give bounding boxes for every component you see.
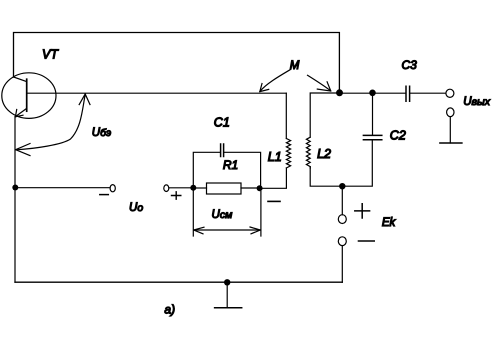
- node: collector / L2 / C3 junction: [336, 89, 343, 96]
- terminal: plus circle left of R1: [164, 185, 169, 192]
- dimension arrow Uсм double-headed: [195, 229, 260, 231]
- arrow from M to L2 top (right): [308, 75, 331, 91]
- svg-text:Ek: Ek: [382, 217, 397, 229]
- wire: C1 branch loop: [193, 152, 220, 188]
- terminal: Uo minus circle: [110, 185, 115, 192]
- wire: ground stem: [226, 282, 228, 308]
- svg-text:C1: C1: [214, 115, 230, 129]
- wire: C3 to output terminal: [410, 92, 446, 94]
- label minus at Uo terminal: [100, 194, 109, 196]
- wire: lower output terminal to ground: [449, 117, 451, 143]
- wire: battery node down to plus terminal: [341, 186, 343, 215]
- svg-text:Uсм: Uсм: [212, 209, 233, 221]
- terminal: Uвых lower circle: [447, 108, 454, 117]
- wire: bottom line: [15, 281, 342, 283]
- inductor L2 coil: [306, 137, 310, 168]
- capacitor C2 plates: [363, 135, 381, 139]
- label minus right of R1 right node: [268, 200, 280, 202]
- svg-text:L1: L1: [268, 150, 282, 164]
- svg-text:C2: C2: [390, 129, 406, 143]
- node: ground junction on bottom line: [224, 279, 230, 285]
- wire: node to Uo terminal: [15, 187, 110, 189]
- wire: top frame from collector to top-right corner: [14, 33, 340, 93]
- transistor VT emitter diagonal: [15, 108, 26, 116]
- svg-text:Uвых: Uвых: [463, 96, 491, 108]
- wire: L1 top lead: [285, 93, 287, 138]
- node: R1 left: [190, 185, 196, 191]
- ground at bottom: [215, 307, 242, 309]
- transistor VT body circle: [2, 73, 56, 119]
- label plus at R1 input: [172, 192, 181, 199]
- node: R1 right: [257, 185, 263, 191]
- wire: Ek minus terminal down to bottom line: [341, 246, 343, 283]
- wire: base line from transistor to L1 top: [27, 92, 286, 94]
- wire: collector node to C2 node to C3: [340, 92, 406, 94]
- transistor VT emitter arrowhead: [15, 110, 23, 117]
- label minus at Ek: [359, 240, 375, 242]
- arrow Ubэ curved double arrow between base and emitter: [17, 95, 86, 150]
- terminal: Ek plus circle: [338, 215, 346, 224]
- resistor R1 box: [207, 183, 242, 194]
- wire: R1 box to right node: [241, 187, 260, 189]
- wire: L2 top lead to collector node: [310, 93, 339, 137]
- node: battery top junction: [339, 183, 345, 189]
- svg-text:а): а): [164, 303, 175, 317]
- svg-text:Uо: Uо: [129, 202, 143, 214]
- terminal: Uвых upper circle: [446, 89, 454, 97]
- wire: emitter lead down to bottom-left corner: [14, 117, 16, 283]
- svg-text:Uбэ: Uбэ: [92, 127, 111, 139]
- wire: L2 bottom lead: [310, 141, 372, 186]
- wire: plus terminal to R1 left node: [169, 187, 193, 189]
- label plus at Ek: [355, 204, 370, 218]
- wire: R1 left node to box: [193, 187, 206, 189]
- wire: R1 right node to L1 bottom: [260, 168, 287, 188]
- inductor L1 coil: [286, 139, 290, 169]
- capacitor C3 plates: [406, 86, 410, 101]
- transistor VT collector diagonal: [14, 77, 27, 82]
- node: C2 top junction: [369, 90, 376, 97]
- ground at output: [440, 142, 462, 144]
- terminal: Ek minus circle: [338, 237, 346, 246]
- node: emitter / Uo junction: [12, 185, 18, 191]
- arrow from M to L1 top (left): [260, 70, 291, 92]
- dimension extension lines for Uсм: [193, 191, 261, 236]
- svg-text:L2: L2: [317, 147, 331, 161]
- svg-text:M: M: [290, 60, 300, 72]
- capacitor C1 plates: [221, 144, 224, 157]
- capacitor C2 top lead: [372, 93, 374, 135]
- svg-text:VT: VT: [42, 48, 59, 62]
- svg-text:R1: R1: [223, 158, 238, 172]
- svg-text:C3: C3: [402, 58, 418, 72]
- transistor VT base bar: [26, 79, 28, 111]
